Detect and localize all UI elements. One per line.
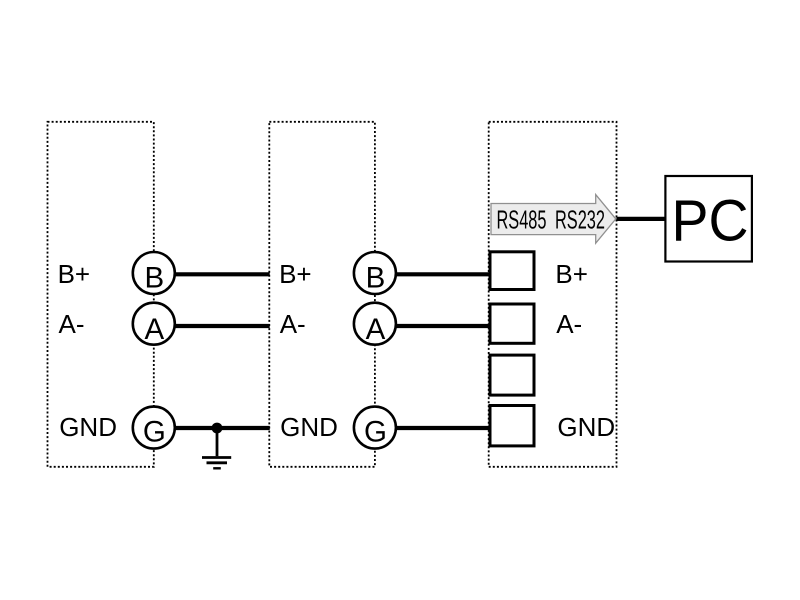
svg-text:B: B bbox=[145, 262, 165, 295]
device box 1 (dashed enclosure) bbox=[48, 122, 154, 467]
label GND (converter) bbox=[557, 412, 615, 442]
svg-text:B+: B+ bbox=[555, 259, 588, 289]
wire A- net: device2 terminal A to converter terminal block 2 bbox=[375, 324, 495, 328]
label A- (converter) bbox=[556, 309, 582, 339]
svg-text:B: B bbox=[366, 262, 386, 295]
junction dot on GND net bbox=[212, 423, 223, 434]
terminal B circle (device 1) bbox=[133, 252, 175, 295]
svg-text:PC: PC bbox=[672, 189, 749, 254]
RS485 to RS232 converter block arrow bbox=[491, 195, 616, 244]
svg-text:RS485: RS485 bbox=[497, 204, 547, 234]
ground (earth) symbol bbox=[202, 428, 231, 468]
wire A- net: device1 terminal A to device2 left border bbox=[154, 324, 270, 328]
terminal block square 2 (converter, A-) bbox=[490, 304, 534, 343]
svg-text:G: G bbox=[364, 416, 387, 449]
svg-text:A-: A- bbox=[556, 309, 582, 339]
label A- (device 2) bbox=[280, 309, 306, 339]
label GND (device 1) bbox=[59, 412, 117, 442]
wire GND net: device1 terminal G to device2 left border bbox=[154, 426, 270, 430]
svg-text:G: G bbox=[143, 416, 166, 449]
svg-text:GND: GND bbox=[59, 412, 117, 442]
wire B+ net: device2 terminal B to converter terminal block 1 bbox=[375, 272, 495, 276]
svg-text:A-: A- bbox=[280, 309, 306, 339]
label GND (device 2) bbox=[280, 412, 338, 442]
svg-text:GND: GND bbox=[280, 412, 338, 442]
svg-text:RS232: RS232 bbox=[555, 204, 605, 234]
terminal block square 1 (converter, B+) bbox=[490, 252, 534, 290]
terminal G circle (device 2) bbox=[354, 407, 396, 449]
wire RS232: converter arrow tip to PC bbox=[617, 217, 666, 221]
terminal block square 3 (converter, unused) bbox=[490, 355, 534, 395]
device box 2 (dashed enclosure) bbox=[269, 122, 375, 467]
label B+ (device 1) bbox=[58, 259, 91, 289]
svg-text:GND: GND bbox=[557, 412, 615, 442]
terminal B circle (device 2) bbox=[354, 252, 396, 295]
svg-text:A: A bbox=[145, 313, 165, 346]
wire B+ net: device1 terminal B to device2 left border bbox=[154, 272, 270, 276]
svg-text:B+: B+ bbox=[279, 259, 312, 289]
wire GND net: device2 terminal G to converter terminal block 4 bbox=[375, 426, 495, 430]
label B+ (device 2) bbox=[279, 259, 312, 289]
svg-text:A: A bbox=[366, 313, 386, 346]
label B+ (converter) bbox=[555, 259, 588, 289]
PC box bbox=[665, 176, 752, 262]
svg-text:B+: B+ bbox=[58, 259, 91, 289]
converter device box 3 (dashed enclosure) bbox=[489, 122, 617, 467]
terminal A circle (device 1) bbox=[133, 303, 175, 346]
label A- (device 1) bbox=[59, 309, 85, 339]
terminal block square 4 (converter, GND) bbox=[490, 406, 534, 446]
terminal G circle (device 1) bbox=[133, 407, 175, 449]
terminal A circle (device 2) bbox=[354, 303, 396, 346]
svg-text:A-: A- bbox=[59, 309, 85, 339]
